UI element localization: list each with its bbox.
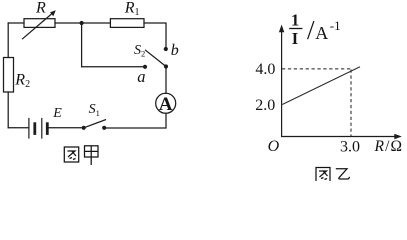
wire bottom-left vertical up to R2 [7, 92, 9, 128]
node a contact [143, 65, 147, 69]
svg-text:2.0: 2.0 [255, 97, 275, 114]
svg-text:I: I [292, 29, 298, 48]
svg-text:E: E [52, 106, 62, 121]
wire junction to R1 [82, 22, 111, 24]
dashed level 4.0 [282, 68, 353, 70]
svg-text:-1: -1 [330, 18, 341, 33]
wire top-left horizontal (corner to rheostat R) [8, 22, 24, 24]
graph y-axis [279, 25, 402, 140]
svg-text:S1: S1 [89, 102, 100, 118]
svg-text:O: O [268, 138, 280, 155]
battery E [29, 119, 47, 139]
wire rheostat to junction [55, 22, 82, 24]
svg-text:R: R [35, 0, 46, 16]
svg-text:A: A [159, 94, 173, 115]
switch S1 left contact [82, 126, 86, 130]
wire S1 to battery [48, 127, 82, 129]
node b contact [164, 47, 168, 51]
svg-text:R2: R2 [14, 72, 30, 91]
svg-text:A: A [315, 23, 328, 43]
caption 图乙 (drawn glyphs) [316, 168, 349, 183]
wire R1 to top-right corner and down to b [144, 23, 166, 47]
wire S2 pivot down to ammeter [165, 67, 167, 93]
wire left vertical (top corner down to R2) [7, 23, 9, 58]
wire branch vertical from junction down [81, 23, 83, 67]
graph x-axis [281, 136, 397, 138]
svg-text:b: b [171, 42, 179, 59]
wire contact a to branch [82, 66, 143, 68]
resistor R2 [4, 58, 14, 93]
caption 图甲 (drawn glyphs) [64, 146, 98, 165]
node junction on top wire [80, 21, 84, 25]
switch S2 lever [146, 50, 167, 66]
rheostat R arrow [23, 10, 56, 39]
switch S1 right contact [102, 126, 106, 130]
curve line 1/I vs R [282, 67, 360, 105]
svg-text:3.0: 3.0 [340, 138, 360, 155]
dashed vertical 3.0 [350, 70, 352, 137]
ammeter A body [156, 93, 176, 113]
y-axis label fraction 1/I over A^-1 [289, 10, 340, 48]
wire battery to bottom-left corner [8, 127, 29, 129]
svg-text:R1: R1 [124, 0, 140, 18]
switch S1 lever [84, 120, 106, 128]
resistor R (rheostat body) [24, 19, 55, 28]
svg-text:R/Ω: R/Ω [374, 138, 403, 155]
svg-text:S2: S2 [134, 43, 145, 58]
wire ammeter to bottom-right corner [106, 113, 166, 128]
switch S2 pivot junction [164, 64, 168, 68]
resistor R1 [110, 19, 144, 28]
svg-text:4.0: 4.0 [255, 61, 275, 78]
svg-text:a: a [137, 67, 145, 86]
svg-text:1: 1 [291, 10, 299, 29]
